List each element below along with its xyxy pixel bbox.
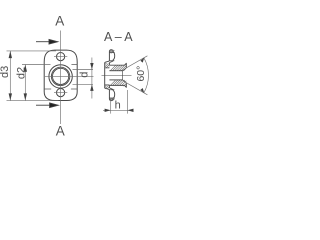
section line A-A vertical	[60, 31, 62, 125]
d dimension line	[91, 58, 93, 99]
top hole crosshair	[54, 56, 67, 58]
bottom hole walls	[109, 90, 114, 98]
collar top wall hatch	[110, 65, 126, 71]
top hole	[57, 53, 65, 61]
d2 top extension line (step line)	[22, 64, 51, 66]
middle slab upper hatch	[105, 63, 110, 68]
horizontal centerline big hole	[45, 75, 94, 77]
section arrows	[36, 39, 58, 107]
collar outline bottom	[109, 83, 126, 88]
thread hole walls through slab	[105, 68, 110, 85]
60 degree cone dimension	[127, 56, 149, 95]
h dimension line	[103, 109, 133, 111]
svg-text:d: d	[78, 72, 90, 78]
bottom cone extension line	[127, 83, 148, 95]
d2 arrow bottom	[24, 93, 27, 100]
d3 arrow bottom	[9, 93, 12, 100]
bend line top right	[72, 64, 78, 66]
bottom hole crosshair	[54, 92, 67, 94]
middle slab left face	[104, 63, 106, 89]
svg-text:A – A: A – A	[104, 30, 133, 44]
thread major circle	[51, 67, 69, 85]
d bottom extension line	[73, 83, 94, 85]
bottom tab hatch	[110, 98, 115, 101]
d2 dimension line	[24, 65, 26, 101]
d3 dimension line	[9, 51, 11, 101]
h arrow right (outside, pointing left)	[127, 109, 133, 112]
d arrow bottom (outside, pointing up)	[90, 84, 93, 91]
svg-text:60°: 60°	[135, 66, 147, 82]
svg-text:d3: d3	[0, 66, 11, 78]
angle arc	[144, 58, 149, 93]
bottom extension line (shared)	[7, 100, 59, 102]
bend line bottom left	[44, 88, 51, 90]
thread minor circle	[53, 68, 69, 84]
centerlines left view	[45, 31, 94, 125]
h right extension line	[126, 90, 128, 114]
d3 top extension line	[7, 50, 57, 52]
top hole walls	[109, 53, 114, 61]
arc arrowhead bottom	[140, 88, 144, 93]
bottom joggle	[105, 88, 113, 90]
countersink edge line	[122, 71, 124, 80]
svg-text:A: A	[56, 123, 65, 138]
collar outline top	[109, 63, 126, 68]
d top extension line	[73, 69, 94, 71]
middle slab right face segments	[108, 63, 110, 88]
bend line bottom right	[71, 88, 77, 90]
bottom tab outline	[109, 90, 114, 101]
h left extension line	[110, 98, 112, 114]
d2 arrow top	[24, 65, 27, 72]
d arrow top (outside, pointing down)	[90, 63, 93, 70]
boss outer circle	[49, 65, 72, 88]
bottom section arrow	[36, 104, 50, 106]
hatching	[105, 50, 127, 101]
arc arrowhead top	[140, 58, 144, 63]
section centerline	[102, 74, 132, 76]
middle slab lower hatch	[105, 85, 110, 89]
svg-text:A: A	[55, 14, 64, 29]
svg-text:d2: d2	[16, 67, 28, 79]
top cone extension line	[127, 56, 148, 68]
top joggle	[105, 61, 113, 63]
svg-text:h: h	[115, 99, 121, 111]
h dimension	[103, 90, 133, 114]
bottom hole	[57, 89, 65, 97]
plate outline	[44, 50, 77, 100]
top tab hatch	[110, 50, 115, 54]
top tab outline	[109, 50, 114, 61]
h arrow left (outside, pointing right)	[105, 109, 111, 112]
d3 arrow top	[9, 51, 12, 58]
collar bottom wall hatch	[110, 80, 126, 86]
top section arrow	[36, 41, 50, 43]
